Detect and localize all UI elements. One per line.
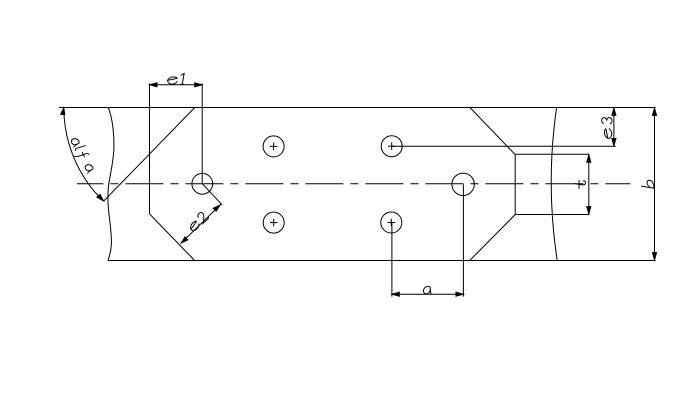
label alfa xyxy=(67,135,97,174)
label e3 xyxy=(602,118,612,139)
square hole top edge xyxy=(515,153,589,155)
alfa arrow top xyxy=(61,107,65,114)
dimension a extension right xyxy=(462,184,464,296)
right chamfer bottom xyxy=(470,215,516,261)
break line right (arc) xyxy=(551,108,557,261)
dimension e3 line xyxy=(612,108,616,147)
dimension e2 extension from H1 xyxy=(202,184,222,205)
label t xyxy=(575,180,586,188)
label e1 xyxy=(168,73,185,84)
dimension e1 line xyxy=(150,83,203,87)
hole H2 top row xyxy=(263,136,284,157)
break line left (wavy) xyxy=(108,107,114,260)
bend line diagonal left xyxy=(104,108,195,202)
part bottom edge xyxy=(108,260,656,262)
dimension e3 extension (hole row axis) xyxy=(392,145,616,147)
square hole left edge xyxy=(514,154,516,214)
hole H5 bottom row xyxy=(381,212,402,233)
hole H1 on axis xyxy=(192,173,213,194)
dimension e2 line xyxy=(181,204,221,243)
dimension a line xyxy=(392,292,464,296)
label b xyxy=(642,180,654,188)
left chamfer edge xyxy=(150,214,195,261)
angle dimension alfa arc xyxy=(64,108,103,202)
label a xyxy=(423,286,431,294)
hole H6 on axis xyxy=(452,173,474,195)
dimension t line (square right edge) xyxy=(587,154,591,214)
centerline (dash-dot axis) xyxy=(77,183,630,185)
alfa arrow bottom xyxy=(97,194,104,201)
hole H4 bottom row xyxy=(263,212,284,233)
left vertical edge xyxy=(149,84,151,214)
hole H3 top row xyxy=(381,136,402,157)
label e2 xyxy=(187,210,209,232)
part top edge xyxy=(59,107,656,109)
dimension a extension left xyxy=(391,223,393,297)
dimension e1 extension right xyxy=(201,84,203,184)
right chamfer top xyxy=(470,108,515,155)
square hole bottom edge xyxy=(515,214,589,216)
dimension b line xyxy=(652,108,656,261)
